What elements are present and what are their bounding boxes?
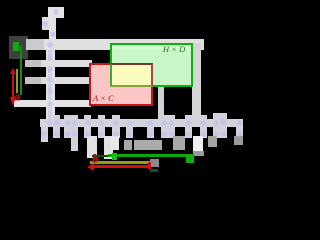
- vertical V2 right trunk: [192, 43, 201, 120]
- green end square: [186, 155, 194, 163]
- dots on bar B at tick junctions: [54, 120, 60, 126]
- bottom red end tick: [148, 162, 151, 169]
- tree trunk upper: [49, 15, 57, 41]
- vertical V1 below green rect: [158, 86, 165, 119]
- lavender node dots: [53, 9, 59, 15]
- green rect H x D: [110, 43, 194, 87]
- comb tick t2: [64, 115, 71, 139]
- letter a: [15, 90, 21, 102]
- comb tick t9: [161, 115, 168, 139]
- trunk lavender wash: [48, 42, 53, 124]
- dark teal mark: [150, 169, 158, 172]
- bright green square on green line: [112, 153, 117, 161]
- comb tick t10: [168, 115, 175, 139]
- gray square right of olive end: [150, 159, 159, 167]
- leaf array cell c1: [87, 136, 97, 158]
- trunk bottom stub: [41, 126, 49, 142]
- bar A: [14, 100, 91, 107]
- leaf array cell c2: [104, 136, 113, 159]
- comb tick t6: [112, 115, 120, 139]
- bar1 ghost inside green rect: [112, 45, 192, 51]
- comb tick t5: [98, 115, 106, 139]
- bottom olive range line: [90, 161, 152, 164]
- left red arrow line: [12, 70, 15, 103]
- comb tick t4: [84, 115, 91, 139]
- leaf array cell c6: [173, 136, 185, 150]
- comb tick t1: [53, 115, 60, 139]
- leaf array cell c3: [110, 136, 119, 150]
- leaf array cell c7: [193, 136, 203, 151]
- bottom red arrow line: [92, 165, 151, 168]
- dark node box left end of bar1: [9, 36, 29, 59]
- bottom red arrowhead left: [87, 163, 94, 171]
- left green range line: [20, 45, 23, 95]
- pink rect A x C: [89, 63, 153, 106]
- leaf array cell c5: [134, 140, 162, 150]
- left red arrowhead top: [10, 68, 16, 74]
- comb tick t8: [147, 119, 155, 138]
- comb tick t11: [185, 115, 193, 139]
- comb tick t13: [213, 113, 220, 139]
- tree trunk: [46, 39, 55, 127]
- leaf array cell c4: [124, 140, 132, 151]
- bar1 dim left segment: [26, 39, 44, 50]
- left olive range line: [16, 69, 19, 93]
- bar B long comb bar: [40, 119, 243, 127]
- comb tick t14: [220, 113, 227, 139]
- bar2: [25, 60, 41, 67]
- bar3: [25, 77, 41, 84]
- leaf array cell c10: [234, 136, 244, 145]
- yellow overlap rect: [110, 63, 153, 87]
- left red arrowhead bottom: [10, 97, 16, 106]
- dots at tick bottoms: [54, 131, 60, 137]
- comb tick t7: [126, 119, 133, 138]
- bar1 root horizontal bar: [26, 39, 204, 50]
- comb tick t15: [236, 119, 243, 138]
- comb tick t12: [200, 115, 208, 139]
- bottom green range line: [92, 155, 109, 158]
- green square in dark box: [13, 42, 20, 51]
- tree top block B1: [48, 7, 64, 18]
- label A x C: [93, 94, 123, 103]
- label H x D: [163, 45, 193, 54]
- tree top block B2: [42, 17, 50, 30]
- leaf array cell c8: [193, 151, 205, 157]
- comb tick t3: [71, 115, 78, 152]
- leaf array cell c9: [208, 136, 217, 147]
- letter b: [93, 152, 99, 164]
- dot on stub S: [220, 118, 226, 124]
